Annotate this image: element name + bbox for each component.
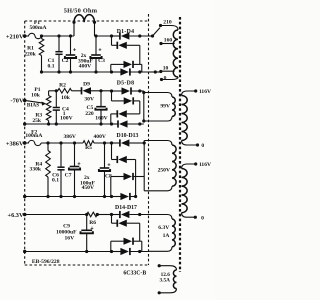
- svg-text:C7: C7: [65, 173, 72, 179]
- capacitor C1 0.1: [48, 34, 63, 73]
- diode D1: [110, 32, 149, 39]
- resistor R1 220k: [24, 34, 44, 73]
- svg-text:450V: 450V: [82, 185, 94, 191]
- wire bridge1 right vertical: [139, 45, 141, 64]
- label 6C33C-B: [123, 271, 146, 277]
- terminal common (y=124): [23, 122, 26, 125]
- svg-text:10k: 10k: [31, 92, 41, 98]
- winding 6.3V 1A: [149, 215, 176, 252]
- fuse F2: [25, 140, 41, 145]
- svg-text:EB-596/228: EB-596/228: [32, 259, 60, 265]
- svg-text:0: 0: [201, 215, 204, 221]
- switch to 210/160 taps: [149, 28, 161, 38]
- tap 10 wire from bridge1: [149, 66, 175, 74]
- svg-text:25k: 25k: [32, 118, 42, 124]
- wire bridge3 verticals: [111, 143, 144, 197]
- tap 116V (2): [194, 162, 211, 168]
- wire bridge4 right vertical: [139, 223, 141, 241]
- svg-text:-70V: -70V: [11, 98, 24, 105]
- svg-text:+386V: +386V: [6, 140, 24, 147]
- winding HV 210-0: [173, 30, 178, 77]
- capacitor C9 10000uF: [56, 215, 94, 254]
- svg-text:116V: 116V: [199, 162, 211, 168]
- svg-text:100mA: 100mA: [25, 133, 42, 139]
- svg-text:+210V: +210V: [6, 33, 24, 40]
- fuse F1: [25, 33, 42, 38]
- svg-text:D9: D9: [83, 82, 90, 88]
- svg-text:10000uF: 10000uF: [56, 230, 77, 236]
- tap 210: [159, 19, 178, 30]
- svg-text:16V: 16V: [64, 236, 74, 242]
- diode D13: [110, 193, 136, 200]
- wire bridge1 verticals: [111, 64, 142, 72]
- svg-text:+: +: [90, 226, 93, 232]
- svg-text:+: +: [73, 48, 76, 54]
- wire section1 bottom rail: [42, 71, 112, 73]
- svg-text:160: 160: [164, 38, 173, 44]
- label 400V: [93, 134, 105, 140]
- choke 5H/50 Ohm label: [64, 8, 98, 15]
- diode D12: [111, 173, 144, 180]
- diode D11: [112, 143, 136, 163]
- svg-text:D5-D8: D5-D8: [117, 81, 135, 87]
- wire bridge2 right vertical: [139, 101, 141, 114]
- svg-text:0.1: 0.1: [48, 64, 55, 70]
- diode D4: [110, 68, 149, 75]
- svg-text:+: +: [107, 163, 110, 169]
- terminal -70V BIAS: [11, 98, 27, 105]
- wire +210V rail left: [42, 35, 75, 37]
- svg-text:250V: 250V: [158, 167, 170, 173]
- diode D5: [110, 87, 144, 94]
- transformer core (dashed): [179, 17, 181, 272]
- capacitor C5 220uF: [85, 91, 107, 126]
- wire +6.3V rail: [25, 213, 89, 216]
- capacitor C4 1uF: [53, 91, 73, 126]
- module enclosure dashed border EB-596/228: [25, 14, 149, 265]
- diode D6: [112, 91, 140, 105]
- svg-text:+: +: [98, 48, 101, 54]
- svg-text:10k: 10k: [61, 95, 71, 101]
- wire R5 to bridge3: [94, 141, 112, 144]
- fuse F2 label: [25, 129, 42, 138]
- svg-text:0: 0: [164, 75, 167, 81]
- svg-text:400V: 400V: [93, 134, 105, 140]
- capacitor C3 390uF: [90, 34, 105, 73]
- capacitor C8 100uF: [99, 143, 112, 198]
- terminal +210V: [6, 33, 27, 40]
- diode D17: [110, 248, 149, 255]
- svg-text:220k: 220k: [24, 52, 36, 58]
- svg-text:5H/50 Ohm: 5H/50 Ohm: [64, 8, 98, 15]
- wire bridge3 mid vertical: [134, 160, 137, 199]
- label D14-D17: [115, 205, 137, 211]
- wire +386 rail: [41, 141, 83, 144]
- diode D8: [110, 120, 144, 127]
- svg-text:100V: 100V: [60, 116, 72, 122]
- diode D7: [111, 110, 140, 117]
- terminal common (y=197): [23, 195, 26, 198]
- svg-text:+6.3V: +6.3V: [7, 212, 23, 219]
- svg-text:400V: 400V: [79, 64, 91, 70]
- wire +210V rail right: [95, 35, 112, 37]
- wire bias bottom rail: [25, 122, 112, 125]
- tap 12.6 top: [158, 264, 161, 267]
- resistor R6: [87, 212, 99, 226]
- winding 99V: [142, 91, 175, 123]
- svg-text:0.1: 0.1: [52, 178, 59, 184]
- tap 160: [159, 38, 174, 46]
- label 2x 100uF 450V: [80, 175, 96, 191]
- terminal +386V: [6, 140, 27, 147]
- label D1-D4: [117, 29, 135, 35]
- svg-text:500mA: 500mA: [29, 25, 46, 31]
- wire bridge2 verticals: [111, 91, 144, 124]
- tap 0: [160, 75, 178, 81]
- wire section4 bottom rail: [25, 251, 112, 253]
- capacitor C6 0.1: [52, 143, 65, 198]
- terminal common (y=251): [23, 250, 26, 253]
- label D10-D13: [117, 133, 139, 139]
- svg-text:3.5A: 3.5A: [159, 277, 170, 283]
- resistor R5: [83, 141, 94, 152]
- wire bridge4 verticals: [111, 241, 142, 251]
- svg-text:330k: 330k: [30, 167, 42, 173]
- svg-text:6C33C-B: 6C33C-B: [123, 271, 146, 277]
- svg-text:1A: 1A: [163, 233, 170, 239]
- svg-text:R5: R5: [85, 145, 92, 151]
- capacitor C2 390uF: [62, 34, 77, 73]
- svg-text:R2: R2: [59, 83, 66, 89]
- svg-text:116V: 116V: [199, 89, 211, 95]
- svg-text:6.3V: 6.3V: [158, 225, 169, 231]
- pot P1 10k: [31, 87, 51, 124]
- diode D2: [112, 36, 140, 49]
- label D5-D8: [117, 81, 135, 87]
- svg-text:0: 0: [201, 143, 204, 149]
- winding primary1 116V: [182, 91, 198, 145]
- diode D16: [111, 238, 142, 245]
- terminal +6.3V: [7, 212, 26, 219]
- svg-text:D14-D17: D14-D17: [115, 205, 137, 211]
- svg-text:220: 220: [85, 111, 94, 117]
- svg-text:BIAS: BIAS: [27, 103, 39, 109]
- label 2x 390uF 400V: [78, 53, 94, 70]
- resistor R4 330k: [30, 143, 51, 198]
- diode D10: [110, 139, 146, 146]
- tap 0 (2): [194, 215, 204, 221]
- fuse F1 label: [29, 20, 46, 31]
- tap 0 (1): [196, 143, 205, 149]
- winding primary2 116V: [182, 164, 196, 217]
- svg-text:10: 10: [163, 66, 169, 72]
- tap 116V (1): [194, 89, 211, 95]
- svg-text:C2: C2: [62, 58, 69, 64]
- choke 5H/50 Ohm: [72, 15, 96, 36]
- label 386V: [63, 134, 75, 140]
- svg-text:99V: 99V: [160, 104, 170, 110]
- svg-text:160V: 160V: [95, 116, 107, 122]
- svg-text:C3: C3: [98, 58, 105, 64]
- tap 12.6 bottom: [158, 291, 161, 294]
- winding 250V: [144, 141, 176, 191]
- diode D15: [112, 215, 140, 227]
- svg-text:D10-D13: D10-D13: [117, 133, 139, 139]
- wire R2 to D9: [72, 90, 82, 92]
- zener D9 30V: [82, 82, 112, 103]
- svg-text:30V: 30V: [84, 97, 94, 103]
- pot wiper arrow: [25, 100, 47, 108]
- svg-text:+: +: [77, 162, 80, 168]
- resistor R3 25k label: [32, 113, 42, 125]
- wire section3 bottom rail: [25, 196, 112, 198]
- label EB-596/228: [32, 259, 60, 265]
- diode D14: [110, 211, 149, 218]
- wire R6 to bridge4: [97, 214, 111, 216]
- capacitor C7 100uF: [65, 143, 81, 198]
- resistor R2 10k: [58, 83, 72, 102]
- svg-text:386V: 386V: [63, 134, 75, 140]
- svg-text:210: 210: [163, 19, 172, 25]
- wire bias top rail: [49, 89, 58, 92]
- winding 12.6V 3.5A: [159, 266, 176, 293]
- diode D3: [111, 61, 142, 68]
